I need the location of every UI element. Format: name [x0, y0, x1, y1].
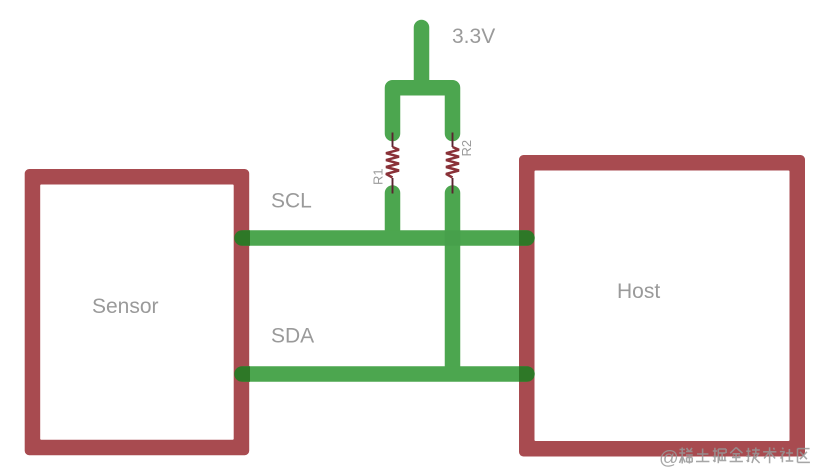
svg-text:Sensor: Sensor: [92, 295, 159, 318]
svg-text:Host: Host: [617, 280, 660, 303]
svg-text:@: @: [659, 447, 679, 469]
svg-text:SCL: SCL: [271, 190, 312, 213]
svg-text:3.3V: 3.3V: [452, 25, 495, 48]
svg-text:R2: R2: [459, 140, 474, 157]
svg-text:SDA: SDA: [271, 325, 314, 348]
svg-text:R1: R1: [371, 168, 386, 185]
